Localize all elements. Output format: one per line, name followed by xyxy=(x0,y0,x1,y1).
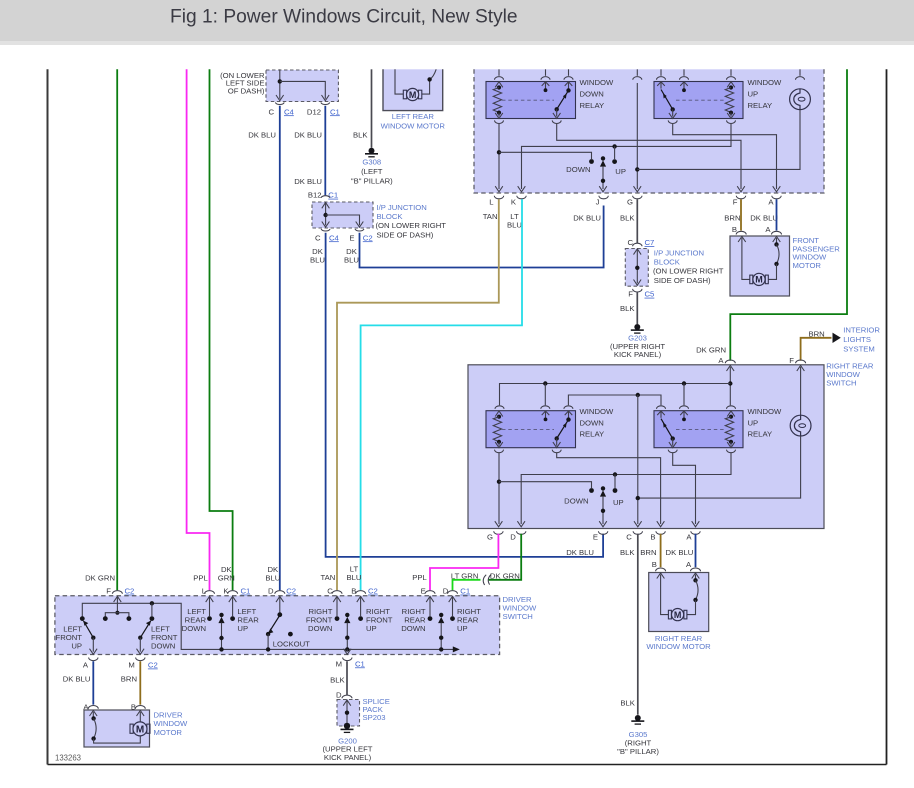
text SPLICE PACK SP203 xyxy=(363,697,390,722)
pin labels B / A above front passenger motor xyxy=(732,225,772,234)
svg-text:DRIVER: DRIVER xyxy=(154,710,183,719)
text WINDOW DOWN RELAY xyxy=(580,78,614,110)
wire LT BLU from K to driver switch B xyxy=(361,199,522,590)
svg-text:G308: G308 xyxy=(362,158,381,167)
svg-text:BLU: BLU xyxy=(310,256,325,265)
text G203 (UPPER RIGHT KICK PANEL) xyxy=(610,334,665,360)
svg-text:BLU: BLU xyxy=(344,256,359,265)
lockout open contact dot xyxy=(288,632,293,637)
text RIGHT REAR WINDOW MOTOR xyxy=(646,634,711,651)
connector cups below switch assembly pins xyxy=(494,196,781,199)
svg-text:F: F xyxy=(789,356,794,365)
right front down contact from pin C xyxy=(333,596,341,621)
contact bus to relay arm pins with BLK tap xyxy=(568,393,661,406)
wire BLK to ground G308 xyxy=(371,69,373,148)
diagram frame right border xyxy=(886,69,888,764)
svg-text:"B" PILLAR): "B" PILLAR) xyxy=(617,747,659,756)
svg-text:A: A xyxy=(686,560,692,569)
svg-text:A: A xyxy=(765,225,771,234)
wire inside driver motor pin B xyxy=(137,710,145,722)
relay K2 common to pin A xyxy=(668,120,780,191)
text I/P JUNCTION BLOCK (ON LOWER RIGHT SIDE OF DASH) xyxy=(653,248,724,285)
svg-text:BLK: BLK xyxy=(353,130,368,139)
relay K3 fixed contact pin xyxy=(542,411,550,421)
svg-text:DOWN: DOWN xyxy=(566,165,590,174)
pin label C / C7 xyxy=(627,238,654,247)
driver switch top pin letters xyxy=(106,587,470,596)
motor M1 left rear window motor symbol xyxy=(403,88,422,100)
svg-text:A: A xyxy=(686,533,692,542)
I/P junction block (on lower left side of dash) xyxy=(266,70,338,102)
svg-text:G: G xyxy=(487,533,493,542)
rocker switch arm to pin J xyxy=(599,156,607,192)
wire inside right junction block to pin E xyxy=(326,215,364,227)
wire DK BLU D12 to B12 xyxy=(324,106,326,196)
wire inside C7 junction block xyxy=(634,249,642,285)
svg-text:C5: C5 xyxy=(645,290,655,299)
wire BLK C5 to ground G203 xyxy=(636,293,638,325)
svg-text:BLU: BLU xyxy=(507,220,522,229)
text LEFT REAR UP xyxy=(237,607,259,633)
svg-text:UP: UP xyxy=(748,89,759,98)
svg-text:DK GRN: DK GRN xyxy=(490,571,520,580)
wire DK BLU driver switch A to motor A xyxy=(92,661,94,705)
svg-text:C2: C2 xyxy=(363,233,373,242)
svg-text:WINDOW: WINDOW xyxy=(748,78,782,87)
pin labels B / A above right rear motor xyxy=(652,560,692,569)
relay K1 fixed contact pin xyxy=(542,82,550,92)
svg-text:RELAY: RELAY xyxy=(748,101,773,110)
svg-text:F: F xyxy=(106,587,111,596)
connector cup D at splice pack xyxy=(342,695,352,698)
svg-text:C1: C1 xyxy=(330,107,340,116)
relay K2 window up relay box xyxy=(654,82,743,119)
svg-text:I/P JUNCTION: I/P JUNCTION xyxy=(377,203,427,212)
right rear window switch box xyxy=(468,365,824,529)
pin label D12 / C1 xyxy=(307,107,340,116)
wire PPL to driver switch L xyxy=(187,69,210,590)
svg-text:BLU: BLU xyxy=(347,573,362,582)
svg-text:C2: C2 xyxy=(368,587,378,596)
relay K2 coil-contact dashed link xyxy=(676,99,726,101)
text RIGHT FRONT DOWN xyxy=(306,607,333,633)
svg-text:BLOCK: BLOCK xyxy=(377,212,404,221)
left front down switch arm to pin M xyxy=(137,621,151,655)
svg-text:SP203: SP203 xyxy=(363,713,386,722)
branch lamp to G wire xyxy=(637,110,800,170)
svg-text:BLK: BLK xyxy=(620,213,635,222)
svg-text:OF DASH): OF DASH) xyxy=(228,86,265,95)
connector cups at front passenger motor xyxy=(736,231,781,234)
svg-text:C: C xyxy=(626,533,632,542)
relay K4 fixed contact pin xyxy=(680,411,688,421)
relay K2 coil xyxy=(725,82,735,119)
wire labels DK BLU BLK BRN DK BLU xyxy=(566,548,693,557)
text WINDOW UP RELAY xyxy=(748,78,782,110)
branch from K wire to UP contact xyxy=(612,146,617,164)
svg-text:RELAY: RELAY xyxy=(748,430,773,439)
relay K1 coil xyxy=(493,82,503,119)
svg-text:DK BLU: DK BLU xyxy=(294,177,322,186)
connector cup C7 xyxy=(633,243,642,246)
svg-text:M: M xyxy=(755,275,763,285)
right front up contact from pin B xyxy=(357,596,365,621)
svg-text:B: B xyxy=(652,560,657,569)
rocker switch arm to pin E xyxy=(599,486,607,527)
svg-text:(ON LOWER RIGHT: (ON LOWER RIGHT xyxy=(653,267,724,276)
svg-text:BLK: BLK xyxy=(620,548,635,557)
connector cup C1 pin B12 xyxy=(321,196,330,198)
connector cup C4 below right junction block xyxy=(321,229,330,231)
svg-text:DOWN: DOWN xyxy=(151,642,175,651)
relay K4 coil-contact dashed link xyxy=(676,428,726,430)
wire DK GRN right rear switch D to splice xyxy=(489,534,522,580)
wire TAN from L to driver switch C xyxy=(337,199,499,590)
wire inside left rear motor (right lead with brush dot) xyxy=(422,69,437,94)
svg-text:L: L xyxy=(489,198,494,207)
text LEFT REAR WINDOW MOTOR xyxy=(381,112,446,130)
connector cups at right rear motor xyxy=(656,568,701,571)
indicator lamp in right rear switch xyxy=(790,365,811,436)
svg-text:D12: D12 xyxy=(307,107,321,116)
svg-text:D: D xyxy=(510,533,516,542)
power bus inside driver switch xyxy=(82,601,455,649)
svg-text:"B" PILLAR): "B" PILLAR) xyxy=(351,176,393,185)
wire BRN right rear switch F to interior lights xyxy=(801,338,832,361)
svg-text:BRN: BRN xyxy=(640,548,656,557)
diagram frame left border xyxy=(47,69,49,764)
svg-text:BLK: BLK xyxy=(620,699,635,708)
wire DK GRN right feed to right rear switch A xyxy=(730,69,847,360)
svg-text:A: A xyxy=(768,198,774,207)
relay K3 coil-contact dashed link xyxy=(502,428,554,430)
text G200 (UPPER LEFT KICK PANEL) xyxy=(323,736,373,762)
svg-text:C1: C1 xyxy=(355,659,365,668)
wire inside right junction block pin B12 to C xyxy=(322,203,330,228)
svg-text:C1: C1 xyxy=(328,191,338,200)
text LEFT FRONT UP xyxy=(56,625,83,651)
svg-text:C2: C2 xyxy=(148,661,158,670)
svg-text:G: G xyxy=(627,198,633,207)
right rear down contact from pin E xyxy=(426,596,434,621)
relay K3 window down relay box xyxy=(486,411,576,448)
indicator lamp in switch assembly xyxy=(790,89,811,110)
ground G305 xyxy=(631,715,644,724)
text RIGHT REAR WINDOW SWITCH xyxy=(826,361,874,387)
relay K4 common to pin A xyxy=(668,450,699,527)
wire inside left rear motor (left lead) xyxy=(395,69,403,94)
svg-text:DK BLU: DK BLU xyxy=(750,214,778,223)
svg-text:LOCKOUT: LOCKOUT xyxy=(273,639,310,648)
svg-text:LT GRN: LT GRN xyxy=(451,571,478,580)
svg-text:WINDOW MOTOR: WINDOW MOTOR xyxy=(646,642,711,651)
motor M3 driver motor symbol xyxy=(130,722,150,736)
cups above relay K3 K4 pins xyxy=(495,406,736,409)
text INTERIOR LIGHTS SYSTEM xyxy=(843,326,880,354)
svg-text:PPL: PPL xyxy=(412,573,427,582)
connector cup C4 pin C xyxy=(275,103,284,105)
wire BLK pin G through assembly xyxy=(634,83,642,192)
connector cups at driver switch top xyxy=(112,591,457,594)
svg-text:SWITCH: SWITCH xyxy=(503,612,533,621)
svg-text:DK GRN: DK GRN xyxy=(696,345,726,354)
svg-text:UP: UP xyxy=(615,167,626,176)
bus end arrow xyxy=(453,646,460,652)
relay K1 coil bottom cup and wire to pin L xyxy=(495,120,504,191)
svg-text:C4: C4 xyxy=(284,107,295,116)
svg-text:M: M xyxy=(336,659,342,668)
svg-text:DK BLU: DK BLU xyxy=(294,130,322,139)
svg-text:LEFT REAR: LEFT REAR xyxy=(392,112,435,121)
text RIGHT FRONT UP xyxy=(366,607,393,633)
wire inside front passenger motor pin B xyxy=(738,236,750,279)
svg-text:J: J xyxy=(596,198,600,207)
svg-text:C1: C1 xyxy=(241,587,251,596)
pin letters L K J G F A xyxy=(489,198,774,207)
I/P junction block C7-C5 (on lower right side of dash) xyxy=(625,249,648,287)
svg-text:DK BLU: DK BLU xyxy=(248,130,276,139)
svg-text:B: B xyxy=(650,533,655,542)
svg-text:DK BLU: DK BLU xyxy=(63,675,91,684)
wire DK BLU right rear switch A to motor xyxy=(695,534,697,568)
svg-text:DOWN: DOWN xyxy=(564,497,588,506)
pin label E / C2 xyxy=(349,233,372,242)
wire inside left junction block to pin D12 xyxy=(280,81,329,100)
relay K2 movable arm and common xyxy=(657,82,676,119)
label DK BLU (C4 wire) xyxy=(310,247,325,265)
splice pack SP203 box xyxy=(337,700,360,727)
wire BLK right rear switch C to ground G305 xyxy=(637,534,639,715)
svg-text:DOWN: DOWN xyxy=(580,418,604,427)
svg-text:DK BLU: DK BLU xyxy=(666,548,694,557)
svg-text:C: C xyxy=(627,238,633,247)
text G308 (LEFT "B" PILLAR) xyxy=(351,158,393,186)
svg-text:UP: UP xyxy=(457,624,468,633)
wire DK BLU from C4 down and right to right-rear switch E xyxy=(326,233,603,557)
wire pin K to relay K2 coil xyxy=(518,120,736,191)
motor M2 front passenger motor symbol xyxy=(750,273,769,285)
header title bar xyxy=(0,0,914,41)
svg-text:KICK PANEL): KICK PANEL) xyxy=(324,753,372,762)
svg-text:GRN: GRN xyxy=(218,574,235,583)
relay K4 movable arm and common xyxy=(657,411,676,448)
wire inside front passenger motor pin A with brush arc xyxy=(768,236,780,279)
wire BRN from F to front passenger motor B xyxy=(740,199,742,230)
branch from G wire to DOWN contact xyxy=(499,482,594,493)
svg-text:A: A xyxy=(83,661,89,670)
relay K2 fixed contact pin xyxy=(680,82,688,92)
text RIGHT REAR UP xyxy=(457,607,481,633)
svg-text:M: M xyxy=(136,724,144,735)
wire inside right rear motor pin B xyxy=(657,573,669,615)
wire DK GRN to driver switch F xyxy=(116,69,118,590)
pin labels A / B above driver motor xyxy=(83,702,136,711)
label DK BLU (E wire) xyxy=(344,247,359,265)
svg-text:C4: C4 xyxy=(329,233,340,242)
pin label F / C5 xyxy=(628,290,654,299)
svg-text:D: D xyxy=(336,691,342,700)
svg-text:M: M xyxy=(674,610,682,620)
left rear rocker arm xyxy=(218,613,224,652)
text I/P JUNCTION BLOCK (ON LOWER RIGHT SIDE OF DASH) xyxy=(376,203,447,240)
svg-text:DOWN: DOWN xyxy=(308,624,332,633)
svg-text:UP: UP xyxy=(71,642,82,651)
wire BLK driver switch M to splice pack xyxy=(346,661,348,695)
text LEFT REAR DOWN xyxy=(182,607,207,633)
svg-text:UP: UP xyxy=(748,418,759,427)
svg-text:RELAY: RELAY xyxy=(580,430,605,439)
svg-text:M: M xyxy=(128,661,134,670)
svg-text:WINDOW: WINDOW xyxy=(580,78,614,87)
wire A feed inside right rear switch xyxy=(727,365,735,405)
connector cup C5 xyxy=(633,289,642,292)
text RIGHT REAR DOWN xyxy=(401,607,426,633)
text DRIVER WINDOW SWITCH xyxy=(503,595,537,621)
svg-text:BRN: BRN xyxy=(724,214,740,223)
driver window switch box xyxy=(55,596,500,655)
svg-text:C: C xyxy=(327,587,333,596)
right rear up contact from pin D xyxy=(449,596,457,621)
left front up contact xyxy=(80,616,85,621)
connector cups at right rear switch top xyxy=(725,360,805,363)
relay K3 coil xyxy=(493,411,503,448)
svg-text:UP: UP xyxy=(366,624,377,633)
svg-text:C2: C2 xyxy=(286,587,296,596)
svg-text:K: K xyxy=(223,587,229,596)
arrow to interior lights system xyxy=(833,333,841,343)
pin label B12 / C1 xyxy=(308,191,338,200)
svg-text:E: E xyxy=(593,533,598,542)
right rear rocker arm xyxy=(438,613,444,652)
svg-text:K: K xyxy=(511,198,517,207)
right rear window motor box xyxy=(649,573,709,632)
svg-text:Fig 1: Power Windows Circuit,: Fig 1: Power Windows Circuit, New Style xyxy=(170,7,518,28)
text WINDOW DOWN RELAY xyxy=(580,407,614,439)
left rear up contact from pin K xyxy=(229,596,237,621)
branch from D wire to UP contact xyxy=(613,475,618,493)
front passenger window motor box xyxy=(730,236,790,296)
connector cups below right rear switch pins xyxy=(494,531,701,534)
ground G308 xyxy=(365,148,378,157)
svg-text:A: A xyxy=(718,356,724,365)
wire pin D to relay K4 coil xyxy=(517,450,735,527)
wire inside left junction block pin C xyxy=(276,69,284,100)
svg-text:SIDE OF DASH): SIDE OF DASH) xyxy=(377,230,434,239)
wire BLK from bus to pin C xyxy=(637,395,639,524)
relay K4 coil xyxy=(725,411,735,448)
right front rocker arm to pin M xyxy=(344,613,352,655)
relay K1 window down relay box xyxy=(486,82,576,119)
svg-text:C: C xyxy=(268,107,274,116)
svg-text:SIDE OF DASH): SIDE OF DASH) xyxy=(654,276,711,285)
pin labels A / F on right rear switch top xyxy=(718,356,794,365)
motor M4 right rear motor symbol xyxy=(668,609,687,621)
svg-text:D: D xyxy=(268,587,274,596)
connector cup C2 below right junction block xyxy=(355,229,364,231)
text G305 (RIGHT "B" PILLAR) xyxy=(617,730,659,756)
driver window motor box xyxy=(84,710,150,747)
svg-text:DK BLU: DK BLU xyxy=(566,548,594,557)
svg-text:KICK PANEL): KICK PANEL) xyxy=(614,350,662,359)
svg-text:BLK: BLK xyxy=(620,304,635,313)
connector cup C1 pin D12 xyxy=(321,103,330,105)
svg-text:INTERIOR: INTERIOR xyxy=(843,326,880,335)
svg-text:B12: B12 xyxy=(308,191,322,200)
svg-text:M: M xyxy=(409,90,417,100)
svg-text:D: D xyxy=(443,587,449,596)
wire PPL right rear switch G to driver switch E xyxy=(430,534,498,591)
svg-text:E: E xyxy=(421,587,426,596)
svg-text:DOWN: DOWN xyxy=(401,624,425,633)
svg-text:SYSTEM: SYSTEM xyxy=(843,345,875,354)
svg-text:MOTOR: MOTOR xyxy=(154,728,183,737)
svg-text:BLK: BLK xyxy=(330,675,345,684)
lamp to BLK wire link xyxy=(636,436,801,500)
svg-text:I/P JUNCTION: I/P JUNCTION xyxy=(654,248,704,257)
top feed wires into switch assembly xyxy=(495,69,805,79)
left front down contact feed xyxy=(150,603,155,621)
diagram frame bottom border xyxy=(48,764,887,766)
svg-text:SWITCH: SWITCH xyxy=(826,379,856,388)
svg-text:E: E xyxy=(349,233,354,242)
relay K1 movable arm and common xyxy=(553,82,572,119)
driver switch pin F feed xyxy=(114,596,122,603)
svg-text:WINDOW: WINDOW xyxy=(580,407,614,416)
relay K1 common to pin F xyxy=(552,120,745,191)
wire inside splice pack to ground xyxy=(343,700,351,725)
text WINDOW UP RELAY xyxy=(748,407,782,439)
svg-text:C1: C1 xyxy=(460,587,470,596)
left front up switch arm to pin A xyxy=(83,621,97,655)
BLK wire arrow at pin C xyxy=(634,521,642,527)
svg-text:F: F xyxy=(733,198,738,207)
svg-text:C2: C2 xyxy=(125,587,135,596)
pin letters G D E C B A xyxy=(487,533,692,542)
svg-text:DOWN: DOWN xyxy=(580,89,604,98)
text FRONT PASSENGER WINDOW MOTOR xyxy=(793,236,841,270)
center contacts of left front rocker xyxy=(103,603,131,621)
wire labels TAN / LT BLU / DK BLU / BLK / BRN / DK BLU xyxy=(483,212,778,230)
svg-text:DK BLU: DK BLU xyxy=(573,213,601,222)
left rear down contact from pin L xyxy=(206,596,214,621)
lockout switch from pin D xyxy=(266,596,284,651)
svg-text:RELAY: RELAY xyxy=(580,101,605,110)
pin label C / C4 xyxy=(268,107,294,116)
svg-text:WINDOW: WINDOW xyxy=(748,407,782,416)
svg-text:BLU: BLU xyxy=(265,574,280,583)
wire DK BLU from E pin right to left-rear switch J xyxy=(360,206,604,268)
branch from L wire to DOWN contact xyxy=(499,152,594,164)
svg-text:BLOCK: BLOCK xyxy=(654,258,681,267)
wire LT GRN splice to driver switch D xyxy=(453,580,481,591)
wire DK BLU to driver switch D xyxy=(279,106,281,591)
I/P junction block (on lower right side of dash) xyxy=(312,202,373,228)
relay K3 coil bottom cup and wire to pin G xyxy=(495,450,504,527)
svg-text:WINDOW: WINDOW xyxy=(154,719,188,728)
svg-text:TAN: TAN xyxy=(483,212,498,221)
svg-text:L: L xyxy=(202,587,207,596)
svg-text:133263: 133263 xyxy=(55,754,81,763)
svg-text:DK GRN: DK GRN xyxy=(85,574,115,583)
svg-text:TAN: TAN xyxy=(320,573,335,582)
power bus to relay K3 coil and contact pins xyxy=(500,381,731,405)
svg-text:DOWN: DOWN xyxy=(182,624,206,633)
wire DK GRN to driver switch K xyxy=(210,69,233,590)
wire BRN driver switch M to motor B xyxy=(139,661,141,705)
svg-text:(LEFT: (LEFT xyxy=(361,167,383,176)
svg-text:WINDOW MOTOR: WINDOW MOTOR xyxy=(381,121,446,130)
svg-text:BRN: BRN xyxy=(808,330,824,339)
